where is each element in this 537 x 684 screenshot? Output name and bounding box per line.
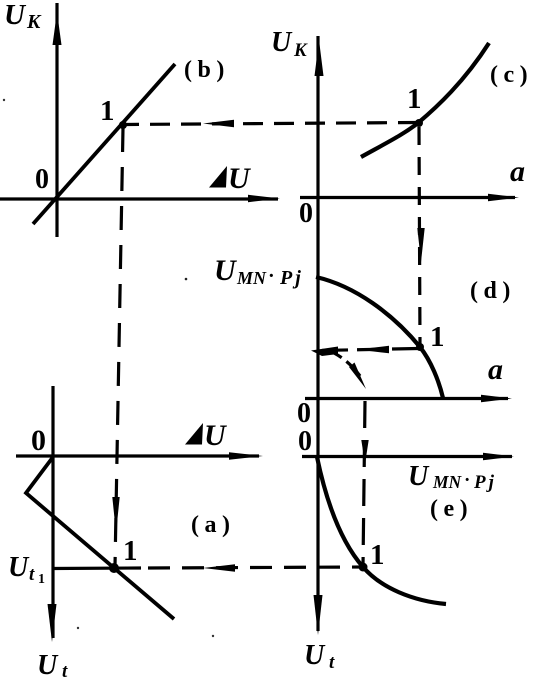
svg-text:U: U xyxy=(214,254,237,287)
svg-text:K: K xyxy=(26,11,42,33)
dashed link b-a vertical xyxy=(112,128,123,566)
dashed link e-a horizontal xyxy=(52,564,362,571)
svg-text:0: 0 xyxy=(299,198,313,229)
svg-text:0: 0 xyxy=(298,426,312,457)
plot (a) y-axis xyxy=(48,386,57,642)
svg-text:0: 0 xyxy=(35,164,49,195)
svg-text:1: 1 xyxy=(38,572,45,587)
dashed curved arrow d to e xyxy=(334,353,366,389)
plot (c) point 1 dot xyxy=(415,119,423,127)
svg-text:Pj: Pj xyxy=(279,267,304,289)
speck noise dots xyxy=(77,627,79,629)
svg-text:U: U xyxy=(228,162,251,195)
plot (c) y-axis xyxy=(314,36,324,635)
svg-text:·: · xyxy=(268,265,275,287)
svg-text:U: U xyxy=(37,650,59,679)
plot (c) curve xyxy=(361,43,489,157)
svg-text:(d): (d) xyxy=(470,278,516,304)
plot (e) point 1 dot xyxy=(359,563,368,572)
svg-text:a: a xyxy=(488,353,503,386)
plot (a) x-axis label dU xyxy=(185,419,227,452)
plot (d) point 1 dot xyxy=(416,343,424,351)
svg-text:1: 1 xyxy=(430,321,445,353)
svg-text:a: a xyxy=(510,155,525,188)
svg-text:U: U xyxy=(4,0,27,31)
svg-text:(c): (c) xyxy=(490,62,533,88)
svg-text:U: U xyxy=(8,552,30,583)
svg-text:0: 0 xyxy=(31,424,46,457)
svg-text:0: 0 xyxy=(297,398,311,429)
svg-text:(e): (e) xyxy=(430,496,473,522)
svg-text:1: 1 xyxy=(407,83,422,115)
plot (e) x-axis xyxy=(302,453,514,460)
svg-text:MN: MN xyxy=(236,268,267,288)
svg-text:t: t xyxy=(62,661,68,679)
svg-text:U: U xyxy=(408,461,430,492)
plot (b) y-axis xyxy=(53,3,62,237)
svg-text:t: t xyxy=(329,652,335,673)
plot (b) point 1 dot xyxy=(119,121,127,129)
svg-text:1: 1 xyxy=(370,539,385,571)
svg-text:K: K xyxy=(293,40,308,61)
dashed link b-c horizontal xyxy=(124,120,418,127)
dashed link d horizontal to axis xyxy=(311,346,418,356)
svg-text:MN: MN xyxy=(432,472,463,492)
dashed link d-e vertical xyxy=(361,401,368,566)
svg-text:U: U xyxy=(204,419,227,452)
plot (a) transfer line xyxy=(26,457,174,619)
svg-text:Pj: Pj xyxy=(473,472,497,493)
svg-text:(a): (a) xyxy=(191,512,235,538)
plot (b) x-axis label dU xyxy=(209,162,251,195)
plot (d) x-axis xyxy=(305,395,512,402)
svg-text:1: 1 xyxy=(100,95,115,127)
plot (e) curve xyxy=(317,457,446,604)
plot (c) x-axis xyxy=(300,194,519,201)
svg-text:U: U xyxy=(271,27,293,58)
svg-text:U: U xyxy=(304,640,326,671)
svg-text:t: t xyxy=(29,564,35,585)
svg-text:·: · xyxy=(464,470,470,491)
svg-text:1: 1 xyxy=(123,535,138,567)
plot (a) x-axis xyxy=(16,452,263,459)
plot (a) point 1 dot xyxy=(109,563,119,573)
plot (d) curve xyxy=(316,277,443,398)
dashed link c-d vertical xyxy=(417,127,424,345)
svg-text:(b): (b) xyxy=(184,57,230,83)
plot (b) transfer line xyxy=(33,64,175,224)
plot (b) x-axis xyxy=(0,195,280,202)
